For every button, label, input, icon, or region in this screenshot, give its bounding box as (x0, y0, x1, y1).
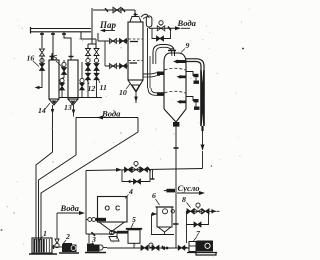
flange tick on bottoms line (173, 223, 179, 225)
vessel 9 inlet spray nozzle top (176, 60, 186, 63)
svg-text:Сусло: Сусло (178, 183, 200, 193)
wire: water line corner down to tank 1 (75, 118, 77, 156)
vessel 9 cone bottom (164, 109, 186, 122)
pipe: station 8 bypass loop with valve (187, 211, 209, 224)
pipe: vessel 6 drain loop (152, 214, 175, 235)
vessel 9 side gauge assembly lower (186, 97, 198, 101)
separator pot (146, 16, 152, 27)
pipe: line under tank 4 to pump 3 (86, 233, 111, 235)
valve station on manifold: gate valve right (141, 167, 148, 172)
control valve with handwheel on water line (159, 21, 163, 25)
column 10 tray dashed line upper (129, 38, 143, 40)
vessel 6 sight glass (163, 209, 168, 214)
wire: header drop to column 14 top (52, 32, 54, 60)
pump 3 body (87, 244, 94, 252)
valve 11 lower gate (94, 73, 99, 80)
pipe: column 10 overhead arch to separator pot (141, 14, 148, 17)
pipe: long diagonal from water line corner to tank 1 (41, 118, 138, 241)
svg-text:Вода: Вода (177, 18, 197, 28)
tank 4 water sparger with sight glasses (86, 219, 88, 221)
svg-text:О С: О С (105, 206, 122, 213)
valve station on manifold: gate valve (125, 167, 132, 172)
tank 1 (collecting tank with grid) (32, 238, 52, 253)
tank 4 hopper bottom (99, 222, 111, 231)
column 10 dome cap (130, 17, 141, 23)
pump 7 base (187, 253, 217, 256)
vessel 9 liquid level dashed lower (165, 91, 186, 93)
wire: header drop to valve 16 (41, 32, 43, 48)
wire: tee to valve chains 12 and 11 (88, 43, 96, 45)
wire: manifold left corner down (85, 171, 87, 235)
pipe: steam riser from top line (91, 10, 93, 44)
column 14 (ion exchanger) (49, 60, 59, 99)
pipe: bypass loop under control valve (152, 28, 171, 38)
pipe: bottom water manifold (86, 169, 203, 171)
arrow: transfer inlet upper into vessel 9 (157, 72, 164, 76)
column 13 cone bottom (68, 99, 78, 105)
pump 3 base (85, 252, 106, 254)
svg-text:2: 2 (65, 232, 70, 241)
valve 12 handwheel valve (86, 58, 90, 62)
arrow: wort out right (212, 209, 217, 213)
svg-text:Пар: Пар (99, 20, 117, 30)
arrow: water inflow right (57, 212, 81, 214)
svg-text:14: 14 (38, 106, 46, 115)
valve 16 (upper gate) (40, 49, 45, 56)
pipe: manifold bypass loop with valve (122, 170, 150, 182)
pipe: bottom header under columns (59, 97, 102, 99)
pipe: top line to column 10 (93, 9, 135, 11)
svg-text:5: 5 (132, 215, 136, 224)
wire: column 14 outlet arrow (52, 105, 54, 116)
valve pair on bottom line (141, 245, 148, 250)
pipe: water return line from column 10 bottoms (76, 117, 138, 119)
wire: column 13 outlet arrow to water line (73, 105, 75, 117)
vessel 9 liquid level dashed upper (165, 68, 186, 70)
svg-text:Вода: Вода (101, 109, 121, 119)
pipe: wort inlet elbow at vessel 9 top right (186, 62, 201, 71)
svg-text:6: 6 (152, 191, 156, 200)
tank 4 outlet valve (110, 230, 114, 234)
pipe: tank 4 outlet into item 5 inlet (117, 231, 128, 234)
pump 7 body (189, 242, 196, 252)
vessel 9 shell (163, 62, 165, 109)
wire: header jog to valve chain 11 (81, 32, 96, 39)
valve at pump 2 suction (55, 239, 59, 244)
arrow: circulation inlet lower into vessel 9 (157, 92, 164, 96)
column 10 tray dashed line lower (129, 60, 143, 62)
svg-text:Вода: Вода (60, 203, 80, 213)
arrow: manifold flow right (116, 168, 122, 172)
svg-text:9: 9 (186, 41, 190, 50)
svg-text:13: 13 (64, 103, 72, 112)
pump 2 body (62, 243, 72, 252)
arrow: flow left on bottom line (160, 246, 165, 250)
valve 16 handwheel valve (40, 58, 44, 62)
valve 11 chain upper gate (94, 49, 99, 56)
wire: valve 16 outlet with left arrow (36, 70, 42, 88)
pipe: feed line to column 10 lower with valve pair (104, 41, 106, 66)
wire: station 8 feed from pump 7 discharge (186, 225, 188, 244)
svg-text:1: 1 (43, 229, 47, 238)
vessel 9 internal nozzle lower (179, 101, 186, 104)
pipe: transfer pipe from column 10 wall into vessel 9 (143, 73, 160, 74)
valve 11 handwheel valve (94, 58, 98, 62)
wire: downleg tail to bottom manifold (202, 151, 204, 169)
wire: manifold drain stub (152, 169, 154, 179)
column 10 cone bottom (128, 80, 143, 92)
wire: water branch down to pump 2 suction valve (56, 213, 58, 239)
vessel 6 shell (157, 207, 172, 227)
vessel 9 dome (164, 53, 186, 62)
svg-text:4: 4 (128, 187, 133, 196)
tank 1 base line (29, 253, 57, 255)
item 5 flanged cap (126, 228, 142, 230)
pipe: condensate water line to right (149, 27, 177, 29)
pipe: bottom transfer line from pump 3 to pump 7 (107, 247, 189, 249)
station 8 control valve (196, 203, 200, 207)
wire: tank 1 outlet to pump 2 (52, 246, 62, 248)
valve 12 chain upper gate (86, 49, 91, 56)
wire: item 5 bottom stub (133, 243, 135, 248)
valve on top line (113, 7, 121, 13)
flange on bottoms line (167, 189, 176, 193)
vessel 9 internal nozzle middle (179, 76, 186, 79)
valve below 15 (60, 78, 64, 82)
item 5 body (128, 230, 140, 244)
pipe: wort line to station 8 (186, 210, 216, 212)
svg-text:10: 10 (119, 88, 127, 97)
wire: pump 3 suction drop (88, 234, 90, 243)
svg-text:11: 11 (100, 83, 107, 92)
pipe: steam header double line (31, 28, 92, 30)
pump 2 base (59, 252, 79, 254)
svg-text:15: 15 (50, 53, 58, 62)
pipe: feed line to column 10 upper with valve pair (98, 40, 128, 42)
wire: vessel 9 bottoms line down to pump 7 (175, 127, 177, 249)
pipe: wort downleg thick (201, 70, 204, 126)
vessel 9 bottom outlet flange (173, 122, 179, 127)
pipe: circulation pipe from pot down into vessel 9 (147, 28, 149, 88)
station 8 gate valve right (202, 209, 209, 214)
vessel 6 cone bottom (158, 227, 171, 232)
svg-text:8: 8 (182, 195, 186, 204)
pipe: water line drain diagonal to tank 1 (39, 155, 77, 240)
svg-text:12: 12 (88, 84, 96, 93)
arrow: water outflow right (175, 26, 181, 30)
wire: header drop jog to column 13 top (64, 32, 71, 60)
wire: riser right of column 13 (81, 62, 83, 78)
column 14 cone bottom (49, 99, 59, 105)
valve station on manifold: control valve with handwheel (134, 161, 138, 165)
arrow: steam flow to left (101, 30, 115, 32)
pipe: vapour arch from column 10 to vessel 9 dome (153, 45, 175, 65)
valve 15 (handwheel) on column 13 feed (62, 62, 66, 66)
column 10 shell (128, 22, 143, 80)
station 8 gate valve left (187, 209, 194, 214)
valve chain right of column 13 lower (80, 78, 84, 82)
valve 12 lower gate (86, 73, 91, 80)
wire: column 10 bottom outlet arrow (135, 92, 137, 103)
wire: downleg thin tail with arrow (202, 131, 204, 150)
tank 4 outlet elbow to item 5 (109, 237, 119, 242)
wire: top line corner down into column 10 dome (134, 10, 136, 16)
arrow: water flow left (97, 116, 103, 120)
column 13 (ion exchanger) (68, 60, 78, 99)
tank 4 shell (98, 197, 128, 223)
vessel 9 side gauge assembly upper (186, 72, 198, 76)
wire: pot bottom to water line (148, 27, 150, 28)
valve at pump 7 suction (178, 246, 185, 251)
pipe: column 14 drain diagonal to tank 1 (36, 116, 53, 240)
speckle dots (242, 48, 244, 50)
svg-text:3: 3 (91, 235, 96, 244)
arrow: inlet into vessel 6 (152, 212, 157, 216)
arrow: wort flow right (177, 192, 200, 194)
